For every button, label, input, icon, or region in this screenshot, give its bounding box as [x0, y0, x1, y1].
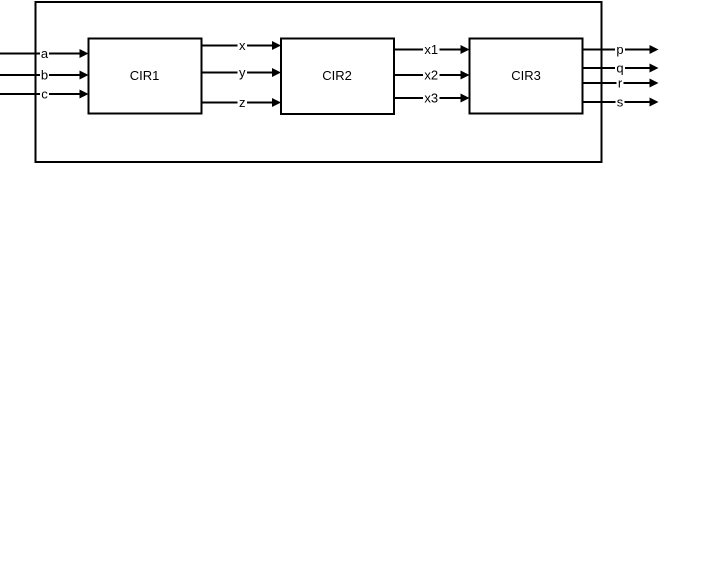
svg-text:r: r: [618, 76, 623, 91]
svg-text:y: y: [239, 65, 246, 80]
svg-text:z: z: [239, 95, 246, 110]
svg-text:x3: x3: [424, 91, 438, 106]
svg-text:s: s: [617, 95, 624, 110]
svg-text:p: p: [616, 42, 623, 57]
svg-text:x: x: [239, 38, 246, 53]
svg-text:b: b: [41, 68, 48, 83]
svg-text:q: q: [616, 61, 623, 76]
svg-text:x1: x1: [424, 42, 438, 57]
svg-text:x2: x2: [424, 68, 438, 83]
svg-text:a: a: [41, 46, 49, 61]
svg-text:CIR1: CIR1: [130, 68, 160, 83]
svg-text:CIR2: CIR2: [322, 68, 352, 83]
svg-text:CIR3: CIR3: [511, 68, 541, 83]
svg-text:c: c: [41, 87, 48, 102]
